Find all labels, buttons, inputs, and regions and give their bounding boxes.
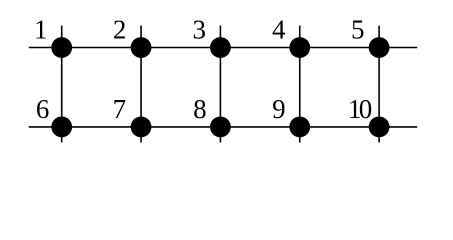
svg-text:6: 6 — [36, 94, 50, 124]
svg-text:2: 2 — [113, 14, 127, 44]
svg-text:1: 1 — [34, 14, 48, 44]
svg-text:4: 4 — [272, 14, 286, 44]
svg-text:8: 8 — [193, 94, 207, 124]
svg-text:3: 3 — [193, 14, 207, 44]
svg-text:7: 7 — [113, 94, 127, 124]
svg-text:5: 5 — [351, 14, 365, 44]
svg-text:9: 9 — [272, 94, 286, 124]
svg-text:10: 10 — [348, 94, 372, 124]
